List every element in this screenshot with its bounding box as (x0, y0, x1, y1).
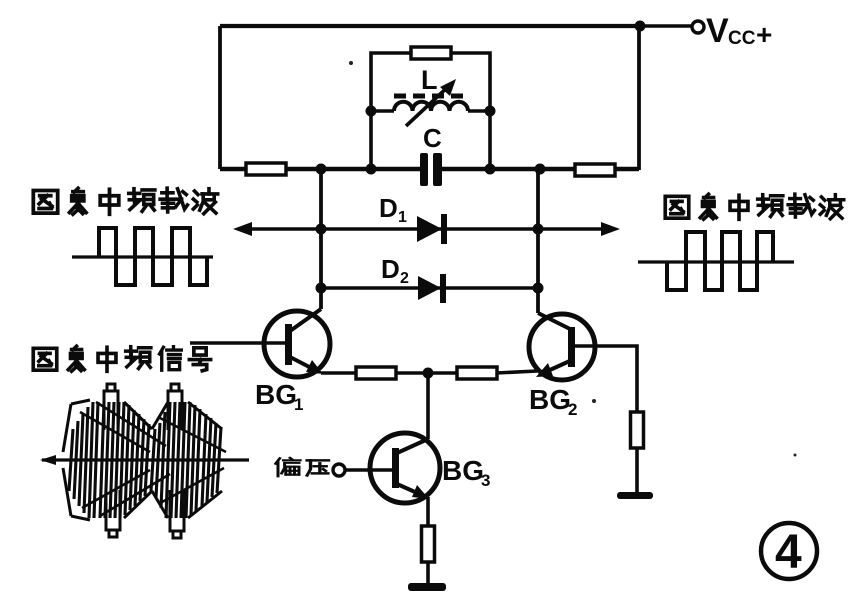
resistor emitter left (356, 367, 396, 379)
wire BG2 base to resistor (575, 346, 637, 412)
diode D1 (417, 214, 447, 244)
label D1 (379, 193, 407, 226)
label BG2 (529, 384, 577, 419)
wire emitter middle (396, 371, 458, 375)
junction bottom rail x321 (316, 164, 327, 175)
svg-text:4: 4 (775, 526, 802, 579)
svg-text:2: 2 (568, 400, 577, 419)
svg-text:BG: BG (442, 455, 484, 486)
ground BG3 (408, 583, 446, 591)
junction D2 right (533, 283, 544, 294)
svg-text:BG: BG (529, 384, 571, 415)
resistor BG2 base bias (631, 412, 644, 448)
wire BG1 emitter (321, 371, 356, 375)
wire D1 line with arrows (233, 222, 620, 236)
ground BG2 branch (617, 492, 653, 499)
node bias terminal (333, 464, 345, 476)
label Vcc + (706, 12, 772, 50)
junction tank right bottom (485, 164, 496, 175)
capacitor C plates (420, 153, 442, 186)
wire BG1 base input (190, 341, 285, 345)
svg-text:V: V (706, 12, 729, 50)
label BG1 (255, 379, 303, 414)
label bias 偏压 (276, 458, 329, 476)
figure number 4 (761, 523, 817, 579)
svg-text:CC: CC (728, 28, 756, 49)
svg-text:+: + (756, 19, 772, 50)
inductor L tuning arrow (406, 79, 456, 126)
diode D2 (418, 274, 446, 303)
waveform right square wave (638, 232, 794, 290)
svg-text:L: L (421, 65, 438, 95)
wire Vcc stub (640, 24, 691, 28)
svg-text:1: 1 (294, 395, 303, 414)
junction top rail right (635, 21, 646, 32)
svg-text:D: D (379, 193, 398, 223)
label D2 (381, 254, 409, 287)
junction D2 left (316, 283, 327, 294)
resistor emitter right (457, 367, 497, 379)
inductor L coil (371, 102, 490, 111)
wire to BG2 emitter (496, 371, 537, 373)
svg-text:C: C (423, 123, 442, 153)
resistor right collector (575, 164, 615, 176)
label right carrier 图象中频载波 (665, 194, 844, 219)
inductor L adjustable core dashes (394, 94, 463, 99)
junction inductor right (485, 106, 496, 117)
wire left edge (218, 26, 222, 169)
wire emitter junction down to BG3 (426, 373, 430, 439)
junction bottom rail x540 (535, 164, 546, 175)
svg-text:3: 3 (481, 471, 490, 490)
wire bottom rail left (220, 167, 421, 171)
wire tank box (371, 53, 490, 169)
transistor BG1 (264, 309, 330, 377)
wire right vertical branch (536, 171, 540, 313)
junction inductor left (366, 106, 377, 117)
svg-text:1: 1 (398, 209, 407, 226)
transistor BG2 (529, 313, 595, 380)
svg-text:2: 2 (400, 270, 409, 287)
resistor left collector (246, 163, 286, 175)
label L (421, 65, 438, 95)
wire BG3 emitter down (426, 497, 430, 527)
node Vcc terminal (692, 21, 704, 33)
junction D1 right (533, 224, 544, 235)
label signal 图象中频信号 (33, 346, 210, 371)
wire bias to BG3 base (346, 468, 392, 472)
svg-text:D: D (381, 254, 400, 284)
scan specks (349, 61, 797, 457)
wire top supply rail (220, 24, 640, 28)
svg-text:BG: BG (255, 379, 297, 410)
junction tank left bottom (366, 164, 377, 175)
resistor tank damping (411, 47, 451, 59)
waveform left square wave (72, 228, 213, 285)
wire left vertical branch (319, 169, 323, 309)
waveform AM modulated signal (40, 384, 249, 538)
label BG3 (442, 455, 490, 490)
wire bottom rail right (442, 167, 639, 171)
transistor BG3 (370, 433, 440, 503)
wire to ground BG3 (426, 562, 430, 583)
label C (423, 123, 442, 153)
label left carrier 图象中频载波 (33, 188, 217, 214)
wire D2 line (321, 286, 538, 289)
junction D1 left (316, 224, 327, 235)
wire right edge (637, 26, 641, 170)
resistor BG3 emitter (422, 526, 435, 562)
junction emitters (423, 368, 434, 379)
wire to ground right (635, 448, 639, 492)
